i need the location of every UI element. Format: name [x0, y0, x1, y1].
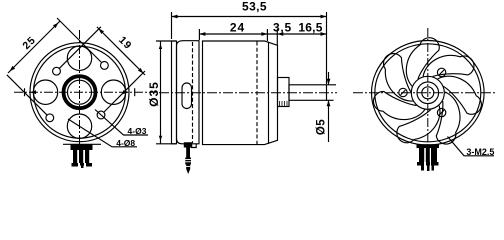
dimension D35 arrows on centerline — [30, 90, 36, 94]
fan blade 6 — [384, 54, 413, 102]
screw M2.5 left — [399, 88, 407, 96]
dimension D5 extension lines — [327, 84, 337, 86]
dimension 19 extension line from NW hole — [59, 27, 101, 69]
dimension D35 extension lines middle view — [156, 40, 176, 42]
can hidden interior edge (dashed) — [256, 42, 258, 145]
svg-text:3,5: 3,5 — [273, 21, 292, 35]
svg-text:3-M2.5: 3-M2.5 — [466, 147, 494, 157]
dimension 25 extension line from SW hole — [7, 75, 47, 115]
dimension 53,5 line — [172, 16, 327, 18]
mount flange plate (side) — [172, 41, 177, 144]
center hub inner circle — [68, 80, 92, 104]
svg-text:24: 24 — [230, 21, 245, 35]
vent slot (stadium) — [182, 83, 192, 109]
bearing boss knurl ticks — [280, 101, 288, 107]
motor front outer circle D35 — [30, 43, 129, 142]
svg-text:4-Ø8: 4-Ø8 — [116, 138, 135, 148]
mounting hole D3 NE — [101, 62, 109, 70]
mounting hole D3 NW — [53, 67, 61, 75]
mounting hole D8 left — [33, 80, 57, 104]
can rear edge line — [268, 42, 270, 144]
fan blade 7 — [406, 38, 439, 87]
fan blade 5 — [373, 91, 424, 119]
shaft — [289, 85, 327, 101]
screw M2.5 lower — [437, 108, 445, 116]
wire plug thread ridges — [185, 160, 191, 167]
rear hub circles — [411, 76, 444, 109]
dimension 25 extension line from NE hole — [57, 18, 101, 62]
dimension 25 line — [8, 21, 60, 73]
wire connector right view — [417, 144, 440, 148]
wire connector feet — [72, 163, 79, 167]
center hub thick ring — [64, 76, 96, 108]
mounting hole D8 bottom — [67, 114, 91, 138]
wire: right view vertical centerline — [427, 28, 429, 150]
wire: middle view horizontal centerline — [159, 92, 337, 94]
dimension 19 line — [97, 27, 145, 75]
mounting hole D3 SE — [97, 111, 105, 119]
dimension 53,5 extension line left — [171, 12, 173, 39]
wire: left view vertical centerline — [79, 30, 81, 152]
wire: right view horizontal centerline — [353, 92, 497, 94]
fan blade 1 — [423, 55, 474, 76]
bearing boss — [278, 78, 290, 107]
dimension row2 line — [199, 33, 326, 35]
mounting hole D8 right — [101, 80, 125, 104]
dimension D35 line middle view — [160, 41, 162, 144]
motor can (rotor bell) — [203, 41, 278, 145]
leader line 4-D8 — [68, 119, 137, 147]
svg-text:Ø5: Ø5 — [315, 119, 327, 135]
svg-text:Ø35: Ø35 — [147, 81, 161, 107]
housing bottom step — [192, 144, 197, 148]
wire: left view horizontal centerline — [14, 91, 157, 93]
dimension 53,5 extension line right (shaft end) — [326, 12, 328, 84]
mounting hole D3 SW — [46, 114, 54, 122]
leader line 3-M2.5 — [448, 137, 495, 156]
fan shroud inner circle — [375, 44, 481, 142]
svg-text:4-Ø3: 4-Ø3 — [128, 126, 147, 136]
base line under left view — [63, 143, 101, 145]
wire plug middle view — [184, 142, 192, 174]
screw M2.5 upper — [437, 68, 445, 76]
dimension D5 line — [328, 72, 330, 85]
mounting hole D8 top — [67, 46, 91, 70]
svg-text:53,5: 53,5 — [242, 0, 267, 14]
fan blade 2 — [438, 76, 482, 114]
fan blade 3 — [436, 92, 460, 144]
wire connector right feet — [417, 162, 424, 166]
dimension D35 tick left — [24, 88, 26, 96]
dimension D35 tick right — [134, 88, 136, 96]
motor front inner rim circle — [34, 46, 126, 138]
svg-text:16,5: 16,5 — [298, 21, 322, 35]
dimension row2 extension lines — [198, 29, 200, 40]
fan shroud outer circle — [372, 41, 485, 146]
wire connector right pins — [421, 166, 424, 171]
fan blade 4 — [397, 106, 440, 143]
dimension 19 extension line from SE hole — [104, 71, 146, 113]
hidden edge in housing (dashed) — [192, 42, 194, 143]
wire connector left view — [71, 145, 93, 151]
leader line 4-D3 — [95, 110, 148, 136]
front housing block (side) — [177, 41, 200, 144]
